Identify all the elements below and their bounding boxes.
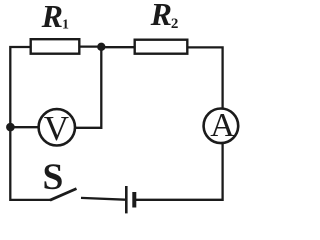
wire: ammeter to bottom-right corner to battery (136, 144, 223, 200)
resistor R1 (31, 39, 80, 54)
wire: node B to voltmeter (10, 126, 39, 128)
wire: top-left segment, left side, bottom-left segment (10, 47, 50, 200)
svg-text:R: R (41, 0, 63, 34)
svg-text:2: 2 (171, 16, 179, 32)
svg-text:A: A (210, 107, 235, 144)
switch S blade (50, 189, 77, 201)
wire: R2 to top-right corner, down to ammeter (188, 47, 223, 108)
node B (junction dot on left wire for voltmeter branch) (6, 123, 15, 132)
battery: long thin plate (125, 186, 128, 213)
wire: voltmeter right to vertical riser up to node A (75, 47, 101, 128)
wire: battery to switch (81, 198, 125, 200)
battery: short thick plate (132, 192, 136, 208)
wire: R1 to node A (80, 45, 101, 47)
voltmeter V (39, 109, 75, 145)
svg-text:S: S (43, 157, 64, 198)
wire: node A to R2 (101, 46, 135, 48)
ammeter A (204, 109, 239, 144)
svg-text:V: V (44, 109, 69, 148)
svg-text:R: R (150, 0, 172, 32)
svg-text:1: 1 (62, 18, 69, 33)
node A (junction dot between R1 and R2) (97, 43, 105, 51)
resistor R2 (135, 40, 188, 54)
